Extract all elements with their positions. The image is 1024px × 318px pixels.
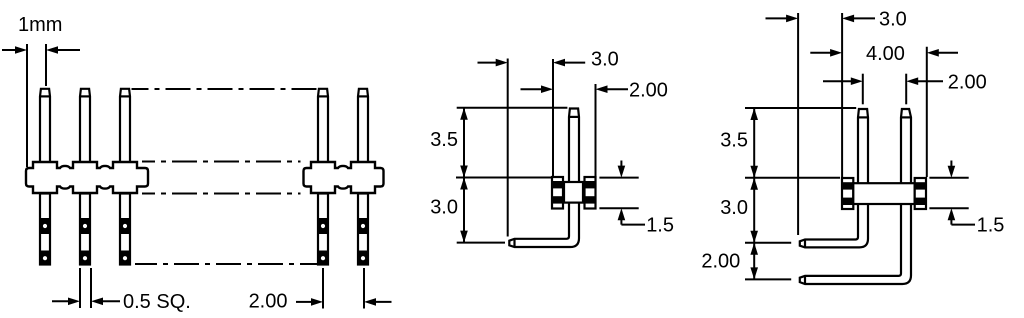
extension line (body right vertical) xyxy=(926,47,928,177)
body right block xyxy=(585,177,596,209)
pin U1 upper xyxy=(569,109,579,183)
svg-text:3.5: 3.5 xyxy=(720,130,748,152)
dimension 2.00 arrows xyxy=(296,301,312,303)
extension line upper leg level xyxy=(745,242,791,244)
pin P2 upper xyxy=(80,89,90,162)
extension line (front pin vertical) xyxy=(862,74,864,105)
body center bar xyxy=(853,183,914,204)
pin P5 lower (solder tail) xyxy=(358,194,368,265)
dimension 0.5 SQ. extension lines xyxy=(79,268,81,308)
dimension 2.00 top arrows xyxy=(823,80,852,82)
dimension 2.00 extension lines xyxy=(322,268,324,309)
extension line (body left vertical) xyxy=(552,59,554,177)
break line (dash-dot) housing top level xyxy=(142,161,301,163)
vertical dimension line 3.5/3.0 xyxy=(463,108,465,243)
break line (dash-dot) tail bottom level xyxy=(135,263,317,265)
extension line body-top level xyxy=(456,177,552,179)
dimension 1.5 extension lines xyxy=(929,177,968,179)
extension line body-top level xyxy=(745,177,840,179)
pin Q2 back upper xyxy=(901,109,911,183)
dimension 0.5 SQ. arrows xyxy=(52,300,69,302)
dimension 2.00 arrows xyxy=(521,88,543,90)
body center block xyxy=(564,182,583,203)
dimension 4.00 arrows xyxy=(810,52,831,54)
body left block xyxy=(552,177,563,209)
extension line (leg tip vertical) xyxy=(797,13,799,235)
svg-text:2.00: 2.00 xyxy=(701,251,740,273)
dimension 3.0 top arrows xyxy=(478,62,497,64)
vertical dimension line 3.5/3.0/2.00 xyxy=(753,108,755,279)
svg-text:2.00: 2.00 xyxy=(948,72,987,94)
dimension 1mm extension lines xyxy=(26,44,28,167)
svg-text:3.0: 3.0 xyxy=(591,49,619,71)
svg-text:3.0: 3.0 xyxy=(879,9,907,31)
dimension 1.5 arrows and leader xyxy=(620,161,622,167)
break line (dash-dot) pin tip level xyxy=(132,88,320,90)
extension line (leg tip vertical) xyxy=(507,59,509,237)
pin P4 lower (solder tail) xyxy=(318,194,328,265)
svg-text:3.0: 3.0 xyxy=(720,197,748,219)
extension line (back pin vertical) xyxy=(905,74,907,105)
pin Q2 bent leg lower xyxy=(800,204,911,284)
pin P3 lower (solder tail) xyxy=(120,194,130,265)
svg-text:2.00: 2.00 xyxy=(629,79,668,101)
extension line (body left vertical) xyxy=(841,13,843,177)
body right block xyxy=(915,178,926,209)
pin P3 upper xyxy=(120,89,130,162)
dimension 1.5 arrows and leader xyxy=(950,161,952,167)
pin P1 lower (solder tail) xyxy=(40,194,50,265)
svg-text:2.00: 2.00 xyxy=(249,291,288,313)
svg-text:3.0: 3.0 xyxy=(430,197,458,219)
dimension 1mm arrows xyxy=(2,49,16,51)
svg-text:1mm: 1mm xyxy=(18,14,62,36)
pin Q1 bent leg upper xyxy=(800,204,868,247)
svg-text:4.00: 4.00 xyxy=(866,43,905,65)
housing body right group xyxy=(304,162,384,193)
extension line lower leg level xyxy=(745,278,791,280)
svg-text:3.5: 3.5 xyxy=(430,129,458,151)
break line (dash-dot) housing bottom level xyxy=(142,193,301,195)
dimension 1.5 extension lines xyxy=(599,177,638,179)
body left block xyxy=(842,178,853,209)
pin P1 upper xyxy=(40,89,50,162)
svg-text:1.5: 1.5 xyxy=(977,215,1005,237)
extension line pin-top level xyxy=(457,107,568,109)
extension line pin-top level xyxy=(745,107,856,109)
extension line leg level xyxy=(457,242,505,244)
pin Q1 front upper xyxy=(858,109,868,183)
svg-text:0.5 SQ.: 0.5 SQ. xyxy=(123,291,191,313)
pin U1 bent leg xyxy=(509,203,579,247)
extension line (body right vertical) xyxy=(595,84,597,177)
pin P5 upper xyxy=(358,89,368,162)
pin P2 lower (solder tail) xyxy=(80,194,90,265)
dimension 3.0 top arrows xyxy=(766,17,788,19)
svg-text:1.5: 1.5 xyxy=(646,215,674,237)
pin P4 upper xyxy=(318,89,328,162)
housing body left group xyxy=(26,162,148,193)
